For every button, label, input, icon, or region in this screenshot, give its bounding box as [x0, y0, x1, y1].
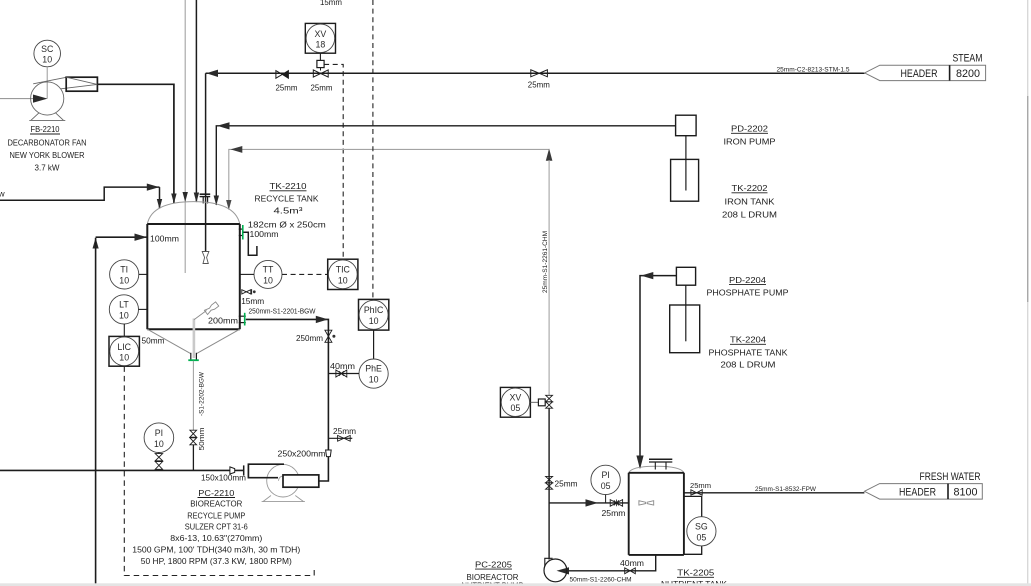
arrow up at corner x=95.6 [93, 238, 99, 249]
svg-text:25mm-S1-2261-CHM: 25mm-S1-2261-CHM [542, 231, 549, 293]
instrument TT 10 [254, 260, 282, 288]
fan FB-2210 inlet line [0, 98, 40, 100]
svg-text:15mm: 15mm [320, 0, 342, 7]
wire: suction header y=470.4 from page left [0, 469, 244, 471]
wire: fresh water into TK-2205 y=492.8 [684, 492, 865, 494]
tank TK-2205 dome [629, 466, 684, 473]
check valve on steam line [276, 71, 282, 79]
internal standpipe (grey) [193, 319, 196, 359]
instrument XV 05 [500, 387, 530, 417]
svg-text:PC-2210: PC-2210 [198, 488, 234, 498]
green flange mark 100mm outlet [242, 225, 244, 240]
arrow into fan center [33, 95, 48, 103]
svg-text:208 L DRUM: 208 L DRUM [722, 210, 777, 220]
wire: PhIC to PhE [373, 330, 375, 359]
svg-text:10: 10 [119, 276, 129, 286]
svg-text:10: 10 [369, 316, 379, 326]
svg-text:PI: PI [601, 470, 609, 480]
instrument SC 10 (fan speed controller) [34, 40, 61, 67]
pump PC-2210 discharge box [283, 475, 319, 487]
tank TK-2205 shell [629, 472, 684, 474]
arrow into dome (CHM, grey) [226, 200, 231, 210]
svg-text:25mm: 25mm [690, 481, 711, 490]
arrow left on CHM line [231, 146, 243, 153]
label rotated -S1-2202-BGW (grey) [199, 372, 206, 416]
wire: TK-2205 bottom outlet to pump [566, 555, 656, 571]
svg-text:50mm: 50mm [197, 428, 206, 451]
svg-text:25mm: 25mm [528, 80, 550, 90]
valve 250mm on riser [325, 330, 332, 336]
signal wire: dashed from XV-18 actuator to TIC [324, 64, 343, 259]
svg-text:10: 10 [369, 375, 379, 385]
suction flange tick [243, 465, 245, 475]
svg-text:25mm-S1-8532-FPW: 25mm-S1-8532-FPW [755, 486, 816, 493]
wire: grey vertical line from page top x=185.2 into tank [184, 0, 186, 273]
svg-text:25mm: 25mm [602, 508, 626, 518]
svg-text:25mm-C2-8213-STM-1.5: 25mm-C2-8213-STM-1.5 [777, 67, 851, 74]
instrument TIC 10 [328, 259, 358, 289]
valve 50mm vertical [190, 430, 197, 437]
wire: CHM black below XV-05 to pump PC-2205 [548, 408, 550, 559]
pump PC-2205 [544, 559, 567, 582]
svg-text:150x100mm: 150x100mm [201, 473, 246, 483]
svg-text:PI: PI [155, 428, 163, 438]
valve 40mm on outlet [625, 568, 630, 574]
tank vent/flame arrester bars on TK-2210 dome [200, 193, 211, 195]
wire: 250mm recycle line tank to riser corner, down to pump discharge [246, 319, 329, 481]
pump PD-2202 iron pump [676, 115, 697, 136]
PI root valves [155, 454, 162, 461]
bottom crop band [0, 583, 1031, 586]
nozzle ticks 100mm right outlet [239, 228, 244, 230]
svg-text:LT: LT [119, 300, 129, 310]
instrument PI 10 [144, 423, 174, 453]
svg-text:40mm: 40mm [330, 361, 355, 371]
wire: LT to LIC [123, 324, 125, 336]
arrow into TK-2205 dome [636, 456, 643, 470]
sparger nozzle inside TK-2210 [202, 252, 209, 264]
dip-leg pipe from 100mm outlet [243, 232, 257, 255]
tank TK-2210 shell [147, 223, 240, 225]
wire: inflow line from left edge with step [0, 187, 160, 200]
svg-text:05: 05 [697, 533, 707, 543]
svg-text:PD-2202: PD-2202 [731, 124, 768, 134]
wire: PD-2204 discharge to TK-2205 [640, 276, 676, 468]
svg-text:50mm-S1-2260-CHM: 50mm-S1-2260-CHM [570, 577, 632, 584]
svg-text:FRESH WATER: FRESH WATER [920, 471, 981, 483]
suction tube into phosphate drum [685, 285, 687, 341]
instrument LIC 10 [109, 336, 139, 366]
svg-text:25mm: 25mm [276, 83, 298, 93]
svg-text:8100: 8100 [954, 487, 978, 499]
instrument PI 05 [591, 465, 620, 494]
instrument XV 18 [305, 23, 335, 53]
svg-text:05: 05 [511, 403, 521, 413]
valve XV-18 gate valve on steam line [313, 70, 320, 77]
svg-text:8200: 8200 [956, 68, 980, 80]
svg-text:200mm: 200mm [208, 316, 238, 326]
svg-text:250x200mm: 250x200mm [278, 449, 326, 459]
svg-text:50mm: 50mm [142, 336, 165, 346]
pump PC-2210 pedestal [262, 496, 305, 502]
arrow into dome (iron line) [214, 196, 219, 206]
svg-text:TK-2204: TK-2204 [730, 335, 766, 345]
svg-text:10: 10 [42, 55, 52, 65]
arrow into pump PC-2205 [557, 567, 570, 574]
fan pedestal [29, 113, 65, 121]
svg-text:PD-2204: PD-2204 [729, 275, 766, 285]
svg-text:182cm Ø x 250cm: 182cm Ø x 250cm [248, 220, 326, 230]
svg-text:XV: XV [315, 29, 327, 39]
sight glass loop on TK-2205 [684, 496, 702, 517]
svg-text:10: 10 [119, 311, 129, 321]
page border right [1027, 0, 1029, 586]
label rotated 50mm [197, 428, 206, 451]
off-page connector flag FRESH WATER HEADER 8100 [864, 484, 982, 500]
valve XV-05 on CHM riser [546, 395, 553, 402]
instrument PhE 10 [359, 359, 388, 388]
arrow: steam flow left at end of line [206, 70, 218, 77]
svg-text:250mm: 250mm [296, 333, 323, 343]
svg-text:SC: SC [41, 44, 54, 54]
svg-text:3.7 kW: 3.7 kW [35, 163, 60, 173]
svg-text:DECARBONATOR FAN: DECARBONATOR FAN [8, 138, 87, 148]
wire: vertical line from page top x=196.4 [195, 0, 197, 202]
tank TK-2202 iron drum [671, 159, 699, 201]
wire: CHM riser grey x=549.1 [548, 160, 550, 395]
suction tube into drum [685, 136, 687, 191]
green flange mark at cone outlet [188, 359, 199, 361]
arrow right before corner [316, 316, 328, 323]
instrument LT 10 [109, 295, 138, 324]
svg-text:100mm: 100mm [150, 234, 179, 244]
instrument SG 05 [687, 517, 716, 546]
arrow into tank wall [135, 234, 148, 241]
svg-text:TK-2205: TK-2205 [677, 568, 714, 578]
tank TK-2204 phosphate drum [670, 305, 700, 353]
svg-text:SG: SG [695, 522, 708, 532]
svg-text:TK-2210: TK-2210 [270, 181, 307, 191]
pump PD-2204 phosphate pump [676, 267, 695, 285]
arrow into dome (x=185.2) [183, 192, 188, 202]
svg-text:PHOSPHATE TANK: PHOSPHATE TANK [709, 347, 788, 357]
reducer 250x200mm [326, 450, 332, 457]
wire: 50mm below valve to suction header [192, 445, 194, 471]
wire: fan discharge to TK-2210 [97, 84, 173, 203]
svg-text:15mm: 15mm [241, 296, 264, 306]
svg-text:18: 18 [316, 40, 326, 50]
svg-text:FB-2210: FB-2210 [31, 124, 60, 134]
svg-text:10: 10 [119, 353, 129, 363]
pump PC-2210 suction box [248, 464, 284, 478]
svg-text:208 L DRUM: 208 L DRUM [721, 360, 776, 370]
arrow into dome (x=196.4) [194, 193, 199, 203]
svg-text:10: 10 [338, 276, 348, 286]
fan discharge duct [66, 77, 97, 91]
label rotated 25mm-S1-2261-CHM [542, 231, 549, 293]
svg-text:250mm-S1-2201-BGW: 250mm-S1-2201-BGW [249, 307, 317, 316]
svg-text:HEADER: HEADER [901, 68, 938, 80]
fan FB-2210 body [31, 82, 64, 115]
svg-text:HEADER: HEADER [899, 487, 936, 499]
valve 25mm on fresh water line [691, 490, 697, 495]
signal wire: dashed TT to TIC [282, 273, 328, 275]
svg-text:-S1-2202-BGW: -S1-2202-BGW [199, 372, 206, 416]
svg-text:RECYCLE TANK: RECYCLE TANK [255, 194, 319, 204]
agitator blade [204, 302, 218, 315]
svg-text:05: 05 [601, 481, 611, 491]
svg-text:TK-2202: TK-2202 [732, 183, 768, 193]
pump PC-2210 casing circle [267, 464, 300, 497]
svg-text:40mm: 40mm [620, 558, 644, 568]
valve 25mm on CHM line [546, 476, 553, 482]
wire: steam main line y=73.3 from corner to header flag [206, 72, 865, 74]
instrument TI 10 [110, 260, 139, 289]
arrow right on branch [586, 499, 599, 506]
svg-text:IRON TANK: IRON TANK [725, 197, 775, 207]
valve actuator XV-05 [538, 399, 545, 406]
svg-text:STEAM: STEAM [953, 53, 983, 65]
arrow left on PD-2204 line [641, 272, 653, 279]
sample valve 15mm on tank wall [242, 290, 247, 294]
arrow up at CHM riser junction [546, 149, 553, 161]
svg-text:25mm: 25mm [311, 83, 333, 93]
wire: SC stem to fan [46, 67, 48, 99]
svg-text:50 HP, 1800 RPM (37.3 KW, 1800: 50 HP, 1800 RPM (37.3 KW, 1800 RPM) [141, 556, 292, 566]
svg-text:8x6-13, 10.63"(270mm): 8x6-13, 10.63"(270mm) [170, 533, 262, 543]
agitator arm [194, 311, 206, 320]
valve 25mm (globe) on branch [610, 500, 616, 507]
svg-text:10: 10 [154, 439, 164, 449]
svg-text:PC-2205: PC-2205 [475, 559, 512, 569]
eductor inside TK-2205 [639, 501, 654, 505]
instrument PhIC 10 [359, 299, 389, 330]
svg-text:TIC: TIC [336, 265, 351, 275]
svg-text:4.5m³: 4.5m³ [274, 206, 303, 216]
off-page connector flag STEAM HEADER 8200 [865, 65, 986, 80]
wire: 100mm feed into tank left [96, 236, 148, 238]
arrow left on iron line [217, 122, 229, 129]
wire: vertical x=95.6 down to page bottom [95, 238, 97, 586]
wire: branch to TK-2205 y=502.9 [549, 502, 629, 504]
svg-text:SULZER CPT 31-6: SULZER CPT 31-6 [185, 522, 248, 532]
tank TK-2210 cone bottom [147, 329, 190, 353]
svg-text:PhE: PhE [365, 364, 382, 374]
svg-text:TT: TT [263, 265, 274, 275]
tank TK-2210 dome [147, 202, 240, 224]
reducer 150x100mm on suction [230, 467, 235, 474]
svg-text:PhIC: PhIC [364, 305, 384, 315]
svg-text:RECYCLE PUMP: RECYCLE PUMP [187, 511, 245, 521]
svg-text:25mm: 25mm [555, 479, 578, 489]
svg-text:10: 10 [263, 276, 273, 286]
cone outlet flange ticks [190, 353, 192, 360]
svg-text:LIC: LIC [117, 342, 131, 352]
svg-text:BIOREACTOR: BIOREACTOR [190, 499, 242, 509]
wire: step line drop to dome [159, 187, 161, 208]
nozzle ticks 200mm outlet [239, 315, 246, 317]
svg-text:NEW YORK BLOWER: NEW YORK BLOWER [10, 150, 85, 160]
drain stub 25mm on riser [328, 437, 352, 439]
signal wire: dashed from page top to PhIC [372, 0, 374, 299]
svg-text:IRON PUMP: IRON PUMP [724, 137, 776, 147]
valve actuator XV-18 [317, 60, 324, 67]
signal wire: dashed LIC interlock box [124, 366, 314, 575]
valve 40mm (globe) [336, 370, 342, 377]
svg-text:TI: TI [120, 265, 128, 275]
wire: XV-05 to actuator [530, 401, 538, 403]
green flange mark 200mm outlet [244, 313, 246, 326]
tank TK-2205 vent [649, 458, 672, 460]
svg-text:XV: XV [510, 393, 522, 403]
valve 25mm on steam line mid [531, 70, 539, 77]
arrow right on step line [147, 184, 160, 191]
wire: iron dosing line y=125.8 [216, 126, 675, 205]
wire: steam drop leg x=205.6 down to tank vent/sparger [205, 73, 207, 251]
wire: 40mm branch to PhE [328, 373, 359, 375]
wire: CHM grey line y=149.4 [229, 149, 549, 209]
svg-text:PHOSPHATE PUMP: PHOSPHATE PUMP [707, 287, 789, 297]
svg-text:25mm: 25mm [333, 426, 356, 436]
arrow into dome (fan line) [171, 194, 176, 204]
svg-text:100mm: 100mm [250, 229, 279, 239]
svg-text:1500 GPM, 100' TDH(340 m3/h, 3: 1500 GPM, 100' TDH(340 m3/h, 30 m TDH) [132, 545, 300, 555]
wire: grey 50mm line from cone to valve [192, 361, 194, 430]
arrow into dome (step line) [157, 199, 162, 209]
